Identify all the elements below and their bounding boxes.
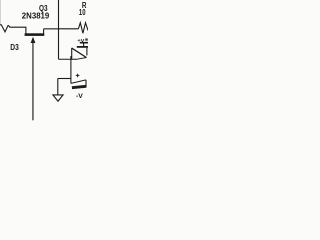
svg-text:D3: D3 — [10, 42, 19, 52]
op-amp U1 bottom edge — [78, 58, 87, 60]
wire drain to junction — [44, 28, 59, 30]
op-amp U2 top edge — [71, 80, 86, 84]
wire junction vertical — [58, 0, 60, 59]
wire output right edge — [86, 48, 88, 56]
wire gate lead — [8, 25, 26, 33]
wire to op-amp U1 input — [59, 58, 78, 60]
resistor R 100k (top right, cut by edge) — [78, 23, 88, 34]
svg-text:2N3819: 2N3819 — [22, 11, 50, 21]
wire +V stub — [83, 43, 85, 46]
svg-text:+V: +V — [77, 38, 85, 44]
wire to resistor R right — [59, 28, 79, 30]
scan edge line — [0, 0, 2, 24]
-V supply bar — [72, 86, 86, 87]
wire drain lead — [43, 29, 45, 34]
ground symbol — [53, 95, 63, 101]
supply rail bar — [77, 46, 88, 48]
op-amp U1 top edge — [72, 48, 87, 57]
diode D3 arrow — [31, 37, 36, 43]
resistor R (left, cut by image edge) — [0, 25, 8, 32]
wire gate down — [32, 43, 34, 121]
op-amp U2 right edge — [85, 80, 87, 88]
ground stub — [57, 79, 59, 95]
wire U1 to U2 vertical — [70, 56, 72, 84]
wire ground to node — [58, 78, 71, 80]
+V supply bar — [80, 42, 88, 44]
plus input mark — [76, 74, 80, 78]
svg-text:-V: -V — [76, 93, 84, 100]
transistor Q3 channel bar — [25, 33, 45, 36]
svg-text:10: 10 — [79, 7, 86, 17]
partial char at edge — [85, 38, 87, 40]
op-amp U1 left edge — [71, 48, 73, 60]
